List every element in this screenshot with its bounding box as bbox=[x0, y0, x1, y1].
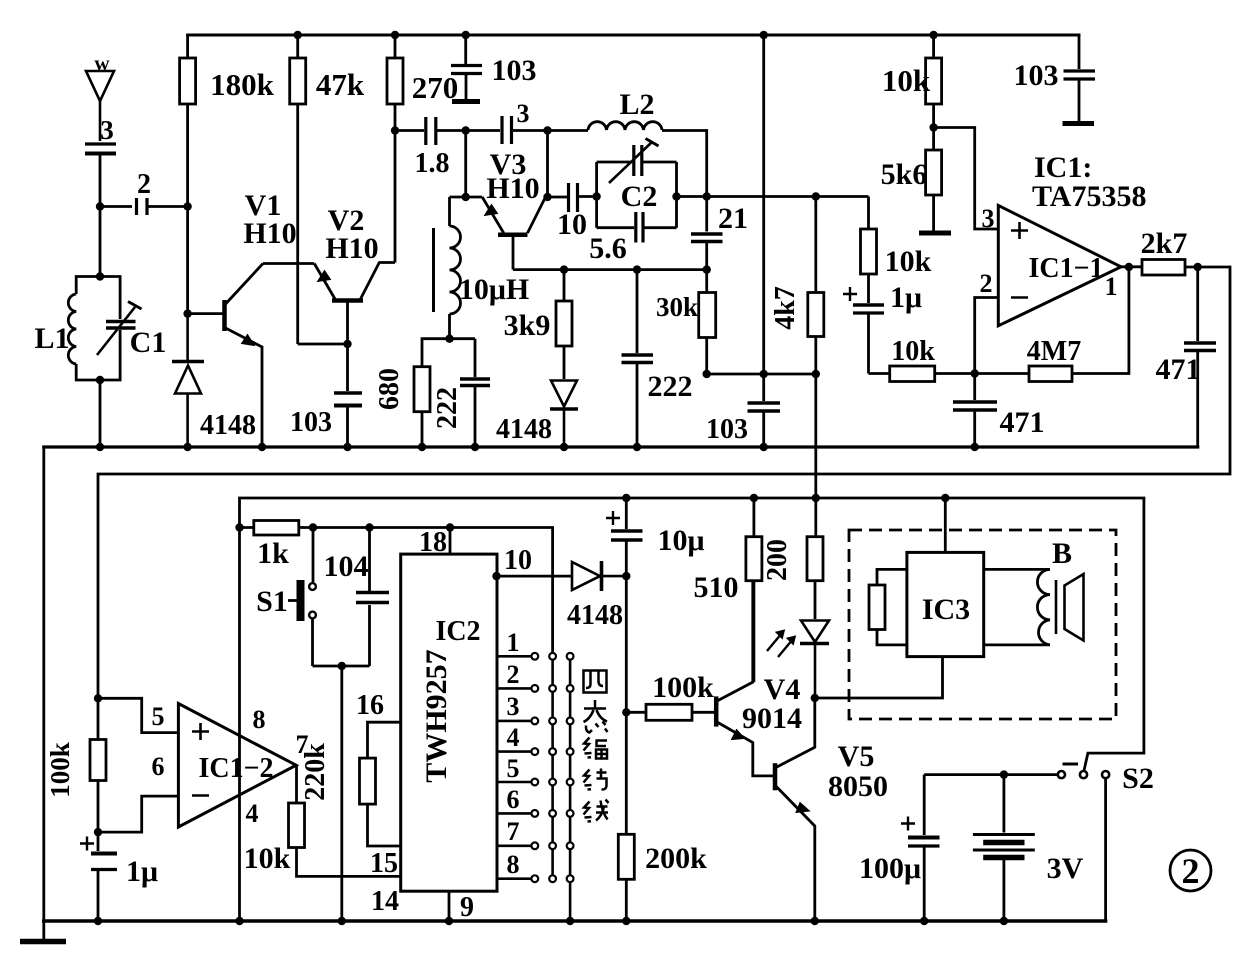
node label: four-state coding lines (Chinese) bbox=[584, 671, 609, 822]
svg-text:4M7: 4M7 bbox=[1027, 336, 1081, 367]
svg-text:4148: 4148 bbox=[567, 600, 623, 631]
resistor 47k bbox=[290, 35, 306, 344]
svg-text:S2: S2 bbox=[1122, 762, 1154, 795]
wire battery top line to 100u bbox=[924, 773, 1004, 776]
wire antenna column down to tank bbox=[99, 207, 102, 277]
svg-text:10k: 10k bbox=[891, 336, 935, 367]
node 21/30k junction bbox=[703, 265, 711, 273]
capacitor 471 (middle) bbox=[953, 374, 997, 448]
svg-text:3k9: 3k9 bbox=[504, 309, 551, 342]
pin number labels 1-8 bbox=[507, 628, 520, 879]
node 100k tap bbox=[622, 708, 630, 716]
dashed module box bbox=[849, 530, 1116, 719]
svg-text:10: 10 bbox=[557, 208, 587, 241]
svg-text:10μ: 10μ bbox=[657, 524, 704, 557]
node 2k7/471 bbox=[1194, 263, 1202, 271]
transistor V5 8050 bbox=[775, 698, 815, 921]
capacitor 1.8 bbox=[395, 117, 466, 145]
svg-text:C1: C1 bbox=[130, 326, 167, 359]
node 220k top bbox=[338, 662, 346, 670]
capacitor 10u electrolytic bbox=[606, 498, 643, 576]
switch S1 pushbutton bbox=[288, 528, 316, 667]
node C2 right bbox=[672, 192, 680, 200]
pin 10 wire bbox=[497, 575, 573, 578]
resistor 4M7 bbox=[975, 267, 1129, 382]
svg-text:103: 103 bbox=[290, 407, 332, 438]
svg-text:5.6: 5.6 bbox=[589, 232, 627, 265]
wire 1.8/3 junction down to V3 emitter bbox=[464, 131, 467, 198]
switch S2 bbox=[1058, 764, 1109, 778]
wire S2 right contact to ground rail bbox=[1104, 778, 1107, 921]
node antenna junction bbox=[96, 202, 104, 210]
capacitor 1u electrolytic bbox=[843, 287, 884, 374]
svg-text:3: 3 bbox=[100, 115, 114, 145]
svg-text:IC3: IC3 bbox=[922, 593, 970, 626]
svg-text:4148: 4148 bbox=[200, 410, 256, 441]
resistor 2k7 bbox=[1142, 260, 1230, 276]
capacitor 104 bbox=[356, 528, 389, 667]
svg-text:1: 1 bbox=[507, 628, 520, 657]
pin 9 bbox=[448, 891, 451, 921]
resistor 100k (IC1-2 bias) bbox=[90, 698, 106, 832]
wire IC1-1 output bbox=[1121, 265, 1142, 268]
node 180k/cap2 junction bbox=[183, 202, 191, 210]
node top rail 10k bbox=[929, 31, 937, 39]
svg-text:2: 2 bbox=[137, 169, 151, 200]
wire y374 V+ node line bbox=[707, 373, 816, 376]
transistor V4 9014 bbox=[716, 581, 775, 776]
svg-text:103: 103 bbox=[492, 54, 537, 87]
svg-text:H10: H10 bbox=[243, 217, 296, 250]
node 222-rail bbox=[633, 443, 641, 451]
svg-text:S1: S1 bbox=[256, 585, 288, 618]
svg-text:30k: 30k bbox=[656, 292, 698, 322]
svg-text:16: 16 bbox=[356, 690, 384, 721]
IC2 pins 1-8 stubs with coding circles bbox=[497, 656, 531, 878]
capacitor 21 bbox=[691, 197, 723, 270]
svg-text:IC2: IC2 bbox=[435, 616, 480, 647]
svg-text:IC1−2: IC1−2 bbox=[198, 753, 273, 784]
node battery-rail bbox=[1000, 917, 1008, 925]
svg-text:w: w bbox=[94, 51, 110, 75]
svg-text:4: 4 bbox=[507, 723, 520, 752]
wire S2 left to battery bbox=[1004, 773, 1058, 776]
node 200 top bbox=[812, 494, 820, 502]
svg-text:100k: 100k bbox=[652, 671, 714, 704]
resistor 30k bbox=[699, 270, 716, 374]
node battery top bbox=[1000, 770, 1008, 778]
svg-text:TA75358: TA75358 bbox=[1032, 180, 1146, 213]
svg-text:4k7: 4k7 bbox=[770, 286, 801, 330]
resistor 100k (V4 base) bbox=[626, 704, 715, 720]
wire feedback line y474 from 2k7 output bbox=[98, 267, 1230, 698]
node V1 emitter-rail bbox=[258, 443, 266, 451]
svg-text:7: 7 bbox=[507, 817, 520, 846]
svg-text:4148: 4148 bbox=[496, 414, 552, 445]
node 680-rail bbox=[418, 443, 426, 451]
antenna W bbox=[86, 71, 114, 141]
wire 180k column to V1 base node bbox=[186, 207, 189, 314]
svg-text:8: 8 bbox=[507, 850, 520, 879]
speaker B bbox=[1056, 574, 1084, 641]
node 4k7 bottom bbox=[812, 370, 820, 378]
node 1u-rail bbox=[94, 917, 102, 925]
node IC3 supply tap bbox=[941, 494, 949, 502]
wire V+ column x239 (pin8/pin4) bbox=[238, 498, 241, 921]
wire y666 S1/104 bottom bbox=[313, 665, 370, 668]
wire 3-cap junction down to V3 collector bbox=[546, 131, 549, 198]
svg-text:47k: 47k bbox=[316, 67, 365, 102]
capacitor 103 (V2 base bypass) bbox=[334, 344, 362, 447]
resistor 10k (IC1-1 input) bbox=[869, 366, 975, 382]
capacitor 2 (coupling) bbox=[100, 198, 188, 215]
svg-text:5: 5 bbox=[152, 702, 165, 731]
encoder column B bbox=[569, 656, 572, 921]
wire 47k bottom to V2 base bbox=[298, 343, 348, 346]
svg-text:V5: V5 bbox=[838, 740, 875, 773]
battery 3V bbox=[973, 775, 1035, 921]
svg-text:14: 14 bbox=[371, 886, 399, 917]
wire 220k column bbox=[340, 666, 343, 921]
wire top supply rail y35 bbox=[188, 34, 1079, 37]
svg-text:8: 8 bbox=[253, 705, 266, 734]
node 100k bottom bbox=[94, 828, 102, 836]
resistor (module internal) bbox=[869, 569, 907, 645]
node 222-rail bbox=[471, 443, 479, 451]
svg-text:5k6: 5k6 bbox=[881, 158, 928, 191]
capacitor 3 (antenna series) bbox=[85, 144, 116, 207]
transistor V2 H10 bbox=[314, 263, 395, 345]
resistor 10k (divider top) bbox=[926, 35, 942, 128]
node V3 emitter junction bbox=[462, 193, 470, 201]
node 10uH bottom bbox=[445, 335, 453, 343]
svg-text:2: 2 bbox=[507, 660, 520, 689]
capacitor 222 (middle) bbox=[622, 270, 654, 447]
node V3 collector junction bbox=[543, 193, 551, 201]
svg-text:2: 2 bbox=[1182, 851, 1200, 891]
wire y527 line to encoder column bbox=[313, 528, 553, 657]
svg-text:10: 10 bbox=[504, 545, 532, 576]
svg-text:L1: L1 bbox=[34, 322, 69, 355]
svg-text:15: 15 bbox=[370, 848, 398, 879]
svg-text:6: 6 bbox=[507, 785, 520, 814]
wire pin2 net bbox=[975, 298, 999, 374]
node top rail x763.7 bbox=[760, 31, 768, 39]
node V5 collector bbox=[811, 694, 819, 702]
svg-text:9014: 9014 bbox=[742, 702, 802, 735]
diode 4148 (V3 base) bbox=[550, 381, 578, 448]
capacitor 100u electrolytic bbox=[901, 775, 940, 921]
svg-text:3V: 3V bbox=[1047, 852, 1084, 885]
svg-text:21: 21 bbox=[718, 202, 748, 235]
resistor 680 bbox=[414, 339, 475, 447]
node divider junction bbox=[929, 123, 937, 131]
inductor L2 bbox=[548, 122, 707, 197]
transistor V1 H10 bbox=[188, 264, 263, 448]
op-amp IC1-2 bbox=[178, 704, 296, 828]
node L2/21 junction bbox=[703, 192, 711, 200]
op-amp IC1-1 TA75358 bbox=[998, 205, 1121, 325]
wire V+ column x763.7 from top rail bbox=[762, 35, 765, 374]
node 1.8/3 junction bbox=[462, 126, 470, 134]
svg-text:471: 471 bbox=[1000, 406, 1045, 439]
resistor 200 bbox=[807, 498, 823, 619]
node 103-rail bbox=[343, 443, 351, 451]
svg-text:680: 680 bbox=[374, 368, 405, 410]
encoder column A bbox=[551, 656, 554, 878]
resistor 3k9 bbox=[556, 270, 572, 379]
node 471-rail bbox=[971, 443, 979, 451]
svg-text:180k: 180k bbox=[210, 67, 275, 102]
node 100u-rail bbox=[920, 917, 928, 925]
node 3k9 top bbox=[560, 265, 568, 273]
svg-text:100μ: 100μ bbox=[859, 852, 921, 885]
node diode-rail bbox=[183, 443, 191, 451]
resistor 510 bbox=[746, 498, 762, 682]
svg-text:1.8: 1.8 bbox=[415, 148, 450, 179]
node 3-cap/L2 junction bbox=[543, 126, 551, 134]
svg-text:200: 200 bbox=[762, 539, 793, 581]
node top rail 47k bbox=[294, 31, 302, 39]
svg-text:10k: 10k bbox=[885, 245, 932, 278]
wire supply right drop to S2 bbox=[1084, 498, 1144, 771]
node tank bottom bbox=[96, 376, 104, 384]
coding contact circles bbox=[531, 653, 573, 882]
pin 18 bbox=[449, 528, 452, 555]
node tank top bbox=[96, 272, 104, 280]
svg-text:1k: 1k bbox=[257, 537, 289, 570]
wire x626 column bbox=[625, 576, 628, 834]
inductor 10uH bbox=[434, 197, 461, 339]
node 220k rail bbox=[338, 917, 346, 925]
svg-text:222: 222 bbox=[432, 387, 463, 429]
node 104 top bbox=[365, 523, 373, 531]
wire ground rail y447 bbox=[44, 445, 1198, 448]
svg-text:8050: 8050 bbox=[828, 770, 888, 803]
svg-text:IC1−1: IC1−1 bbox=[1028, 253, 1103, 284]
ground symbol bottom left bbox=[20, 921, 66, 942]
svg-text:6: 6 bbox=[152, 752, 165, 781]
ground bar (103 top right) bbox=[1063, 121, 1095, 126]
svg-text:222: 222 bbox=[648, 370, 693, 403]
svg-text:2k7: 2k7 bbox=[1141, 227, 1188, 260]
capacitor 222 (emitter bypass) bbox=[460, 339, 490, 447]
node V2 base-cap junction bbox=[343, 340, 351, 348]
wire tank to ground rail bbox=[99, 380, 102, 447]
svg-text:100k: 100k bbox=[45, 742, 75, 798]
capacitor 3 (V3 coupling) bbox=[466, 116, 548, 144]
node 30k bottom bbox=[703, 370, 711, 378]
capacitor 471 (right) bbox=[1184, 267, 1216, 447]
node C2 left bbox=[592, 192, 600, 200]
wire divider to pin3 bbox=[934, 128, 999, 230]
ground bar (103 top middle) bbox=[452, 99, 480, 104]
node 510 top bbox=[750, 494, 758, 502]
node y447 rail / antenna column bbox=[94, 694, 102, 702]
svg-text:2: 2 bbox=[980, 269, 993, 298]
node 4k7 top bbox=[812, 192, 820, 200]
node V1 base bbox=[183, 309, 191, 317]
svg-text:3: 3 bbox=[982, 204, 995, 233]
capacitor 1u electrolytic (IC1-2) bbox=[80, 832, 117, 921]
node top rail 103 bbox=[462, 31, 470, 39]
node x763.7 y374 bbox=[760, 370, 768, 378]
svg-text:H10: H10 bbox=[486, 172, 539, 205]
resistor 200k bbox=[618, 834, 634, 921]
svg-text:9: 9 bbox=[460, 892, 474, 923]
svg-text:10k: 10k bbox=[244, 842, 291, 875]
node 222 top bbox=[633, 265, 641, 273]
resistor 5k6 bbox=[926, 128, 942, 232]
wire pin5 net bbox=[98, 698, 178, 732]
node V5 emitter rail bbox=[811, 917, 819, 925]
node x239 rail bbox=[235, 917, 243, 925]
IC3 box bbox=[907, 552, 984, 656]
node output/4M7 bbox=[1125, 263, 1133, 271]
svg-text:104: 104 bbox=[324, 550, 369, 583]
wire V1 collector line y263 bbox=[263, 262, 314, 265]
svg-text:220k: 220k bbox=[300, 743, 331, 801]
wire V+ line y498 bottom section bbox=[240, 497, 1144, 500]
svg-text:200k: 200k bbox=[645, 842, 707, 875]
svg-text:TWH9257: TWH9257 bbox=[420, 649, 453, 782]
resistor 10k (to 1u, right of 4k7) bbox=[861, 197, 877, 304]
wire IC3 top pin bbox=[944, 498, 947, 552]
node 270 column 1.8 junction bbox=[391, 126, 399, 134]
diode 4148 (pin10) bbox=[572, 561, 626, 591]
svg-text:3: 3 bbox=[507, 692, 520, 721]
svg-text:103: 103 bbox=[706, 414, 748, 445]
svg-text:L2: L2 bbox=[619, 88, 654, 121]
pin 16 resistor loop bbox=[360, 722, 401, 846]
figure number circled 2 bbox=[1170, 850, 1211, 891]
svg-text:1μ: 1μ bbox=[890, 281, 922, 314]
svg-text:3: 3 bbox=[517, 99, 530, 128]
node tank-rail bbox=[96, 443, 104, 451]
capacitor 10 bbox=[548, 183, 597, 212]
svg-text:4: 4 bbox=[246, 799, 259, 828]
svg-text:C2: C2 bbox=[621, 180, 658, 213]
resistor 4k7 bbox=[808, 197, 824, 499]
svg-text:5: 5 bbox=[507, 754, 520, 783]
wire bottom ground rail y921 bbox=[44, 919, 1106, 923]
capacitor 103 (V+ bypass) bbox=[748, 374, 781, 447]
resistor 10k (IC1-2 output) bbox=[289, 765, 401, 876]
wire y196 line C2 right to 10k column bbox=[677, 195, 869, 198]
capacitor C2 variable with 5.6 bbox=[597, 139, 677, 243]
IC2 TWH9257 box bbox=[401, 554, 497, 891]
node 10u top bbox=[622, 494, 630, 502]
wire pin6 net bbox=[98, 796, 178, 832]
svg-text:471: 471 bbox=[1156, 353, 1201, 386]
svg-text:270: 270 bbox=[412, 70, 459, 105]
svg-text:B: B bbox=[1052, 537, 1072, 570]
svg-text:103: 103 bbox=[1014, 59, 1059, 92]
LED V4 indicator bbox=[767, 621, 829, 699]
diode 4148 (V1 base clamp) bbox=[172, 314, 204, 447]
transistor V3 H10 bbox=[450, 197, 546, 270]
node diode/10u junction bbox=[622, 572, 630, 580]
svg-text:H10: H10 bbox=[325, 232, 378, 265]
wire left edge vertical joining rails bbox=[42, 447, 45, 921]
ground bar (5k6) bbox=[919, 231, 951, 236]
node 3k9 diode-rail bbox=[560, 443, 568, 451]
resistor 180k bbox=[180, 35, 196, 207]
node top rail 270 bbox=[391, 31, 399, 39]
wire V3 base line y269.6 bbox=[513, 268, 707, 271]
capacitor 103 (top middle, to ground) bbox=[451, 35, 482, 100]
svg-text:18: 18 bbox=[419, 527, 447, 558]
node pin2 feedback junction bbox=[971, 369, 979, 377]
svg-text:1μ: 1μ bbox=[126, 855, 158, 888]
svg-text:1: 1 bbox=[1105, 272, 1118, 301]
node 103-rail bbox=[760, 443, 768, 451]
inductor L1 bbox=[68, 277, 100, 381]
resistor 1k bbox=[240, 521, 314, 536]
coil (module internal) bbox=[984, 569, 1050, 645]
node 1k left bbox=[235, 523, 243, 531]
node 1k/S1 bbox=[309, 523, 317, 531]
resistor 270 bbox=[387, 35, 403, 263]
capacitor 103 (top right, to ground) bbox=[1064, 35, 1096, 121]
svg-text:10k: 10k bbox=[882, 63, 931, 98]
svg-text:510: 510 bbox=[694, 571, 739, 604]
node 200k rail bbox=[622, 917, 630, 925]
svg-text:10μH: 10μH bbox=[459, 273, 529, 306]
wire IC3 bottom pin to V5 collector bbox=[815, 657, 943, 698]
capacitor C1 variable bbox=[97, 277, 142, 381]
